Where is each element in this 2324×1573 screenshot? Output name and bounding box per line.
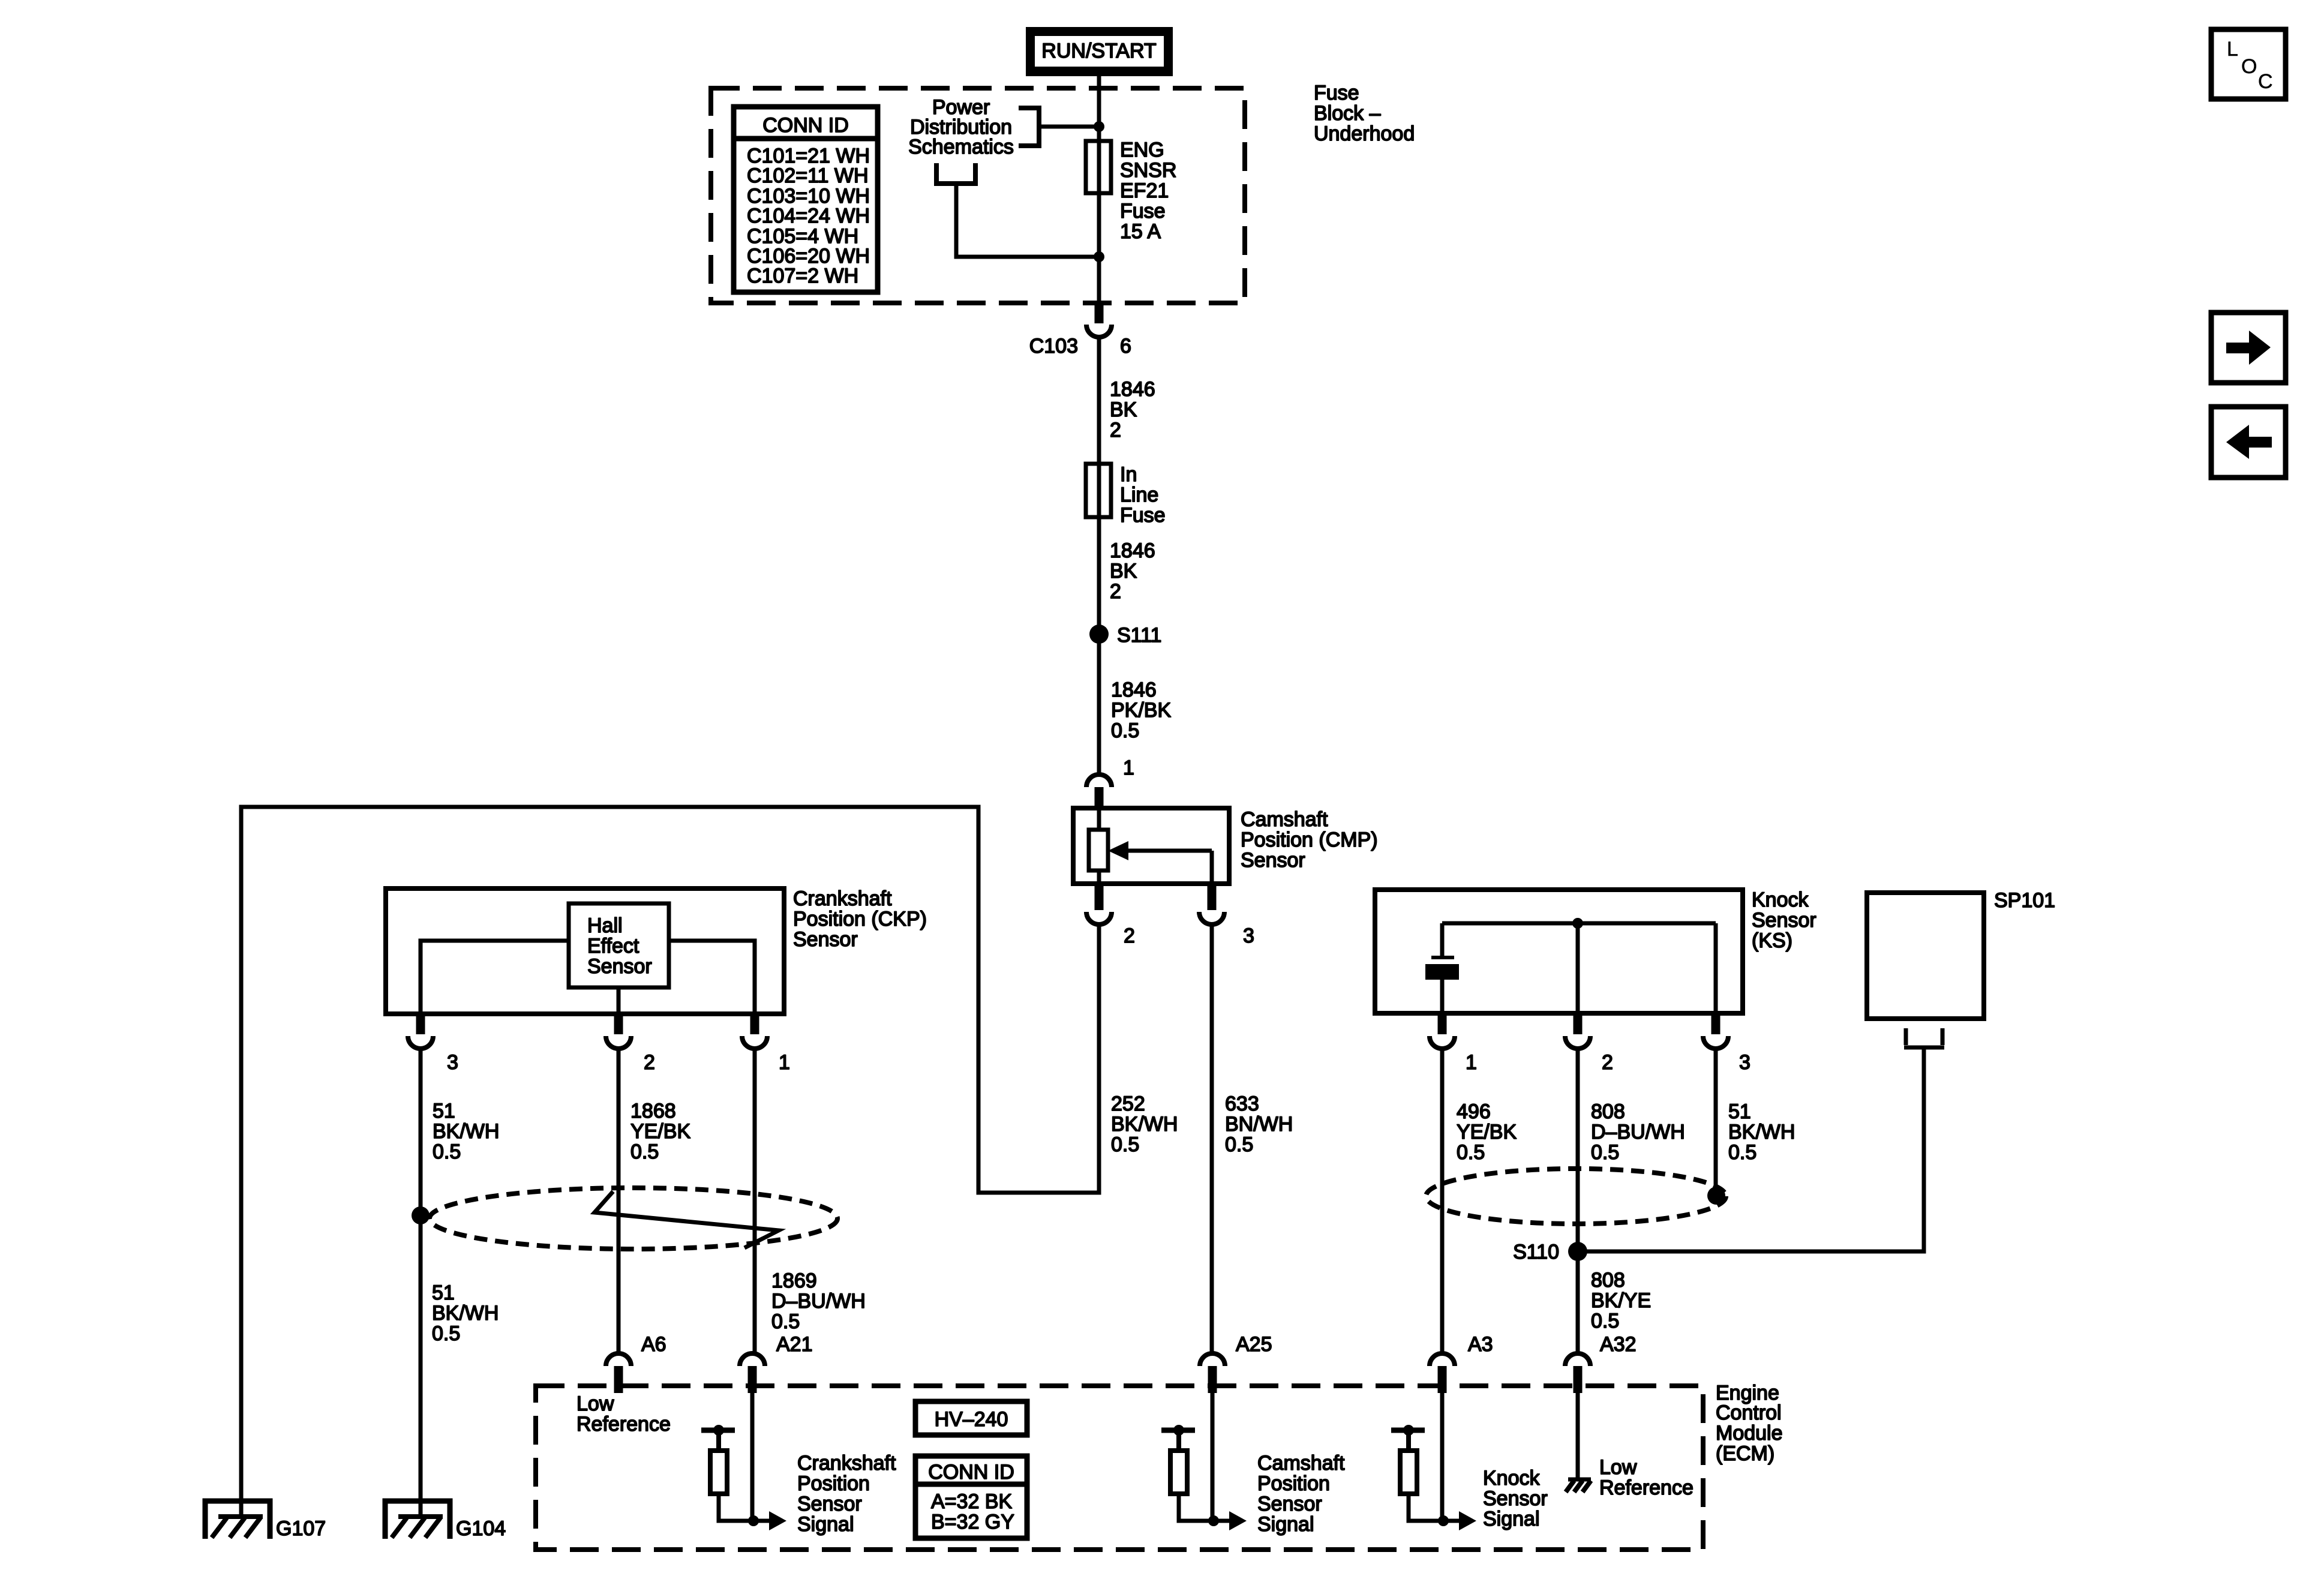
wire bracket to lower node bbox=[956, 184, 1099, 257]
svg-text:BK: BK bbox=[1110, 398, 1137, 421]
label Low Reference (A32) bbox=[1599, 1456, 1694, 1499]
svg-text:51: 51 bbox=[1728, 1100, 1751, 1123]
svg-text:Sensor: Sensor bbox=[1241, 849, 1305, 872]
wire label 252 BK/WH 0.5 bbox=[1111, 1092, 1178, 1156]
svg-text:Sensor: Sensor bbox=[1483, 1487, 1548, 1510]
svg-text:1: 1 bbox=[1123, 757, 1134, 779]
resistor and arrow for KS signal bbox=[1391, 1425, 1476, 1530]
CMP sensing element bbox=[1089, 830, 1108, 870]
ground G107 bbox=[205, 1501, 326, 1540]
connector pin 3 of knock sensor bbox=[1703, 1013, 1750, 1074]
in-line fuse bbox=[1086, 463, 1166, 527]
svg-text:Sensor: Sensor bbox=[793, 928, 858, 951]
svg-text:RUN/START: RUN/START bbox=[1041, 40, 1156, 62]
wire label 51 BK/WH 0.5 bbox=[433, 1100, 499, 1163]
label Fuse Block - Underhood bbox=[1314, 82, 1415, 145]
svg-text:A3: A3 bbox=[1468, 1333, 1493, 1356]
svg-text:Position: Position bbox=[1257, 1472, 1330, 1495]
wire KS internal pin 2 bbox=[1576, 923, 1580, 1013]
connector A32 bbox=[1565, 1333, 1637, 1393]
svg-text:C104=24 WH: C104=24 WH bbox=[747, 205, 870, 227]
svg-text:Schematics: Schematics bbox=[908, 136, 1014, 158]
resistor and arrow for CMP signal bbox=[1161, 1425, 1247, 1530]
connector A21 bbox=[740, 1333, 813, 1393]
connector C103 pin 6 bbox=[1029, 302, 1131, 358]
svg-text:BN/WH: BN/WH bbox=[1225, 1113, 1293, 1136]
svg-text:0.5: 0.5 bbox=[433, 1140, 461, 1163]
wire CKP pin 1 to A21 bbox=[753, 1049, 757, 1352]
wire label 51 BK/WH 0.5 (KS) bbox=[1728, 1100, 1795, 1164]
svg-text:Sensor: Sensor bbox=[587, 955, 652, 978]
wire label 808 D-BU/WH 0.5 bbox=[1591, 1100, 1685, 1164]
knock sensor KS box bbox=[1375, 890, 1743, 1013]
svg-text:51: 51 bbox=[432, 1281, 455, 1304]
svg-text:B=32 GY: B=32 GY bbox=[931, 1511, 1014, 1533]
CONN ID box (ECM) bbox=[915, 1456, 1027, 1538]
svg-text:0.5: 0.5 bbox=[771, 1310, 800, 1333]
svg-text:3: 3 bbox=[1243, 924, 1254, 947]
svg-text:D–BU/WH: D–BU/WH bbox=[771, 1290, 866, 1313]
svg-text:0.5: 0.5 bbox=[630, 1140, 659, 1163]
svg-text:Underhood: Underhood bbox=[1314, 122, 1415, 145]
connector A3 bbox=[1430, 1333, 1493, 1393]
svg-text:0.5: 0.5 bbox=[1111, 1133, 1139, 1156]
svg-text:D–BU/WH: D–BU/WH bbox=[1591, 1121, 1685, 1143]
svg-text:15 A: 15 A bbox=[1120, 220, 1161, 243]
svg-text:Low: Low bbox=[1599, 1456, 1637, 1479]
wire A3 into ECM bbox=[1440, 1393, 1445, 1521]
wire S110 to A32 bbox=[1576, 1251, 1580, 1352]
svg-text:BK: BK bbox=[1110, 560, 1137, 583]
svg-text:0.5: 0.5 bbox=[1591, 1310, 1619, 1332]
svg-text:808: 808 bbox=[1591, 1100, 1625, 1123]
svg-text:PK/BK: PK/BK bbox=[1111, 699, 1171, 722]
svg-text:1869: 1869 bbox=[771, 1269, 817, 1292]
wire CKP internal pin 1 bbox=[669, 941, 755, 1014]
wire A32 to internal ground bbox=[1576, 1393, 1580, 1479]
wire RUN/START to fuse block bbox=[1097, 76, 1101, 127]
connector pin 1 of knock sensor bbox=[1430, 1013, 1477, 1074]
svg-text:Reference: Reference bbox=[1599, 1476, 1694, 1499]
svg-text:Signal: Signal bbox=[1257, 1513, 1314, 1536]
connector pin 3 of CKP sensor bbox=[408, 1014, 458, 1074]
wire label 1846 PK/BK 0.5 bbox=[1111, 679, 1171, 742]
svg-text:0.5: 0.5 bbox=[1111, 719, 1139, 742]
svg-text:3: 3 bbox=[1739, 1051, 1750, 1074]
wire S110 to SP101 bbox=[1578, 1049, 1924, 1251]
CONN ID table (fuse block) bbox=[734, 107, 878, 292]
fuse block underhood dashed outline bbox=[711, 88, 1245, 303]
engine control module ECM dashed outline bbox=[536, 1386, 1703, 1550]
CMP wiper arrow bbox=[1108, 841, 1128, 860]
ECM internal ground (low reference) bbox=[1566, 1479, 1591, 1492]
wire label 808 BK/YE 0.5 bbox=[1591, 1269, 1651, 1332]
connector A6 bbox=[606, 1333, 666, 1393]
svg-text:1868: 1868 bbox=[630, 1100, 676, 1122]
svg-text:1846: 1846 bbox=[1111, 679, 1157, 701]
wire CMP pin 2 to ground G107 bbox=[241, 807, 1099, 1518]
wire in-line fuse to S111 bbox=[1097, 517, 1101, 774]
wire KS pin 1 to A3 bbox=[1440, 1049, 1445, 1352]
svg-text:BK/WH: BK/WH bbox=[433, 1120, 499, 1143]
label Knock Sensor Signal bbox=[1483, 1467, 1548, 1530]
svg-text:C107=2 WH: C107=2 WH bbox=[747, 265, 858, 287]
svg-text:Position: Position bbox=[797, 1472, 870, 1495]
svg-text:C: C bbox=[2258, 70, 2273, 93]
connector pin 3 of CMP sensor bbox=[1199, 884, 1254, 947]
wire label 1868 YE/BK 0.5 bbox=[630, 1100, 690, 1163]
svg-text:A6: A6 bbox=[641, 1333, 666, 1356]
svg-text:S110: S110 bbox=[1513, 1241, 1559, 1263]
svg-text:496: 496 bbox=[1457, 1100, 1491, 1123]
svg-text:Crankshaft: Crankshaft bbox=[797, 1452, 896, 1475]
wire CKP pin 3 to ground G104 bbox=[419, 1049, 423, 1518]
svg-text:Camshaft: Camshaft bbox=[1241, 808, 1328, 831]
svg-text:EF21: EF21 bbox=[1120, 179, 1169, 202]
svg-text:G104: G104 bbox=[456, 1517, 506, 1540]
svg-text:(KS): (KS) bbox=[1752, 929, 1792, 952]
svg-text:Block –: Block – bbox=[1314, 102, 1381, 125]
svg-text:Fuse: Fuse bbox=[1314, 82, 1359, 104]
svg-text:51: 51 bbox=[433, 1100, 455, 1122]
svg-text:2: 2 bbox=[644, 1051, 655, 1074]
svg-text:Knock: Knock bbox=[1483, 1467, 1540, 1490]
svg-text:CONN ID: CONN ID bbox=[762, 114, 849, 137]
svg-text:BK/YE: BK/YE bbox=[1591, 1289, 1651, 1312]
svg-text:G107: G107 bbox=[276, 1517, 326, 1540]
svg-text:C103: C103 bbox=[1029, 335, 1078, 358]
node KS internal junction bbox=[1572, 918, 1583, 929]
label Camshaft Position (CMP) Sensor bbox=[1241, 808, 1378, 872]
connector pin 2 of CMP sensor bbox=[1086, 884, 1135, 947]
svg-text:0.5: 0.5 bbox=[1728, 1141, 1756, 1164]
connector pin 1 of CMP sensor bbox=[1086, 757, 1134, 808]
splice S110 bbox=[1513, 1241, 1587, 1263]
svg-text:O: O bbox=[2241, 55, 2257, 78]
label Power Distribution Schematics bbox=[908, 96, 1014, 158]
twist symbol zigzag (CKP) bbox=[594, 1191, 779, 1248]
fuse ENG SNSR EF21 15A bbox=[1086, 139, 1176, 243]
svg-text:1846: 1846 bbox=[1110, 378, 1155, 401]
wire C103 to in-line fuse bbox=[1097, 337, 1101, 520]
wire KS pin 3 to shield dot bbox=[1714, 1049, 1718, 1196]
junction dot on shield (CKP) bbox=[412, 1206, 430, 1224]
svg-text:BK/WH: BK/WH bbox=[1111, 1113, 1178, 1136]
svg-text:1846: 1846 bbox=[1110, 539, 1155, 562]
svg-text:SP101: SP101 bbox=[1994, 889, 2055, 912]
label Camshaft Position Sensor Signal bbox=[1257, 1452, 1345, 1536]
resistor and arrow for CKP signal bbox=[701, 1425, 786, 1530]
svg-text:Sensor: Sensor bbox=[797, 1493, 862, 1515]
svg-text:S111: S111 bbox=[1117, 624, 1161, 647]
camshaft position sensor CMP box bbox=[1073, 808, 1229, 884]
svg-text:Module: Module bbox=[1716, 1422, 1783, 1445]
svg-text:Signal: Signal bbox=[1483, 1508, 1540, 1530]
svg-text:0.5: 0.5 bbox=[1457, 1141, 1485, 1164]
label Knock Sensor (KS) bbox=[1752, 888, 1816, 952]
svg-text:1: 1 bbox=[1466, 1051, 1477, 1074]
wire CMP internal pin 1 bbox=[1097, 808, 1101, 884]
connector A25 bbox=[1200, 1333, 1272, 1393]
wire label 1846 BK 2 bbox=[1110, 378, 1155, 442]
twisted pair shield ellipse (CKP) bbox=[430, 1188, 837, 1249]
svg-text:A=32 BK: A=32 BK bbox=[931, 1490, 1012, 1513]
svg-text:2: 2 bbox=[1124, 924, 1135, 947]
svg-text:Reference: Reference bbox=[577, 1413, 671, 1436]
wire CKP internal pin 3 bbox=[421, 941, 569, 1014]
svg-text:Fuse: Fuse bbox=[1120, 504, 1166, 527]
piezo element (KS) bbox=[1425, 923, 1459, 1013]
svg-text:BK/WH: BK/WH bbox=[1728, 1121, 1795, 1143]
svg-text:SNSR: SNSR bbox=[1120, 159, 1176, 182]
HV-240 box bbox=[915, 1401, 1027, 1435]
node junction below fuse bbox=[1094, 251, 1104, 262]
wire label 1846 BK 2 (second) bbox=[1110, 539, 1155, 603]
previous page arrow icon bbox=[2211, 407, 2286, 478]
svg-text:3: 3 bbox=[447, 1051, 458, 1074]
splice pack SP101 bbox=[1867, 889, 2055, 1047]
svg-text:0.5: 0.5 bbox=[432, 1322, 460, 1345]
LOC page icon bbox=[2211, 29, 2286, 99]
wire label 633 BN/WH 0.5 bbox=[1225, 1092, 1293, 1156]
off-page reference bracket (right) bbox=[1019, 108, 1039, 146]
connector pin 1 of CKP sensor bbox=[742, 1014, 790, 1074]
off-page reference bracket (bottom) bbox=[936, 163, 975, 184]
svg-text:1: 1 bbox=[779, 1051, 790, 1074]
wire through fuse bbox=[1097, 127, 1101, 303]
label Low Reference (A6) bbox=[577, 1392, 671, 1436]
RUN/START power feed box bbox=[1026, 27, 1173, 76]
svg-text:A21: A21 bbox=[776, 1333, 813, 1356]
svg-text:HV–240: HV–240 bbox=[935, 1408, 1008, 1431]
svg-text:Crankshaft: Crankshaft bbox=[793, 887, 892, 910]
svg-text:Position (CMP): Position (CMP) bbox=[1241, 828, 1378, 851]
wire CKP internal pin 2 bbox=[617, 987, 621, 1014]
label Engine Control Module (ECM) bbox=[1716, 1382, 1783, 1465]
svg-text:2: 2 bbox=[1110, 419, 1121, 442]
wire KS internal bus bbox=[1442, 921, 1716, 926]
svg-text:Effect: Effect bbox=[587, 935, 639, 957]
svg-text:Knock: Knock bbox=[1752, 888, 1809, 911]
svg-text:ENG: ENG bbox=[1120, 139, 1164, 161]
svg-text:L: L bbox=[2227, 38, 2238, 61]
wire label 51 BK/WH 0.5 (lower) bbox=[432, 1281, 499, 1345]
splice S111 bbox=[1089, 624, 1161, 647]
svg-text:Sensor: Sensor bbox=[1752, 909, 1816, 932]
wire label 496 YE/BK 0.5 bbox=[1457, 1100, 1517, 1164]
svg-text:YE/BK: YE/BK bbox=[1457, 1121, 1517, 1143]
svg-text:Low: Low bbox=[577, 1392, 614, 1415]
wire KS internal pin 3 bbox=[1714, 923, 1718, 1013]
hall effect sensor block bbox=[569, 903, 669, 987]
svg-text:Fuse: Fuse bbox=[1120, 200, 1166, 223]
svg-text:633: 633 bbox=[1225, 1092, 1259, 1115]
svg-text:252: 252 bbox=[1111, 1092, 1145, 1115]
svg-text:CONN ID: CONN ID bbox=[928, 1461, 1014, 1484]
svg-text:BK/WH: BK/WH bbox=[432, 1302, 499, 1325]
svg-text:A32: A32 bbox=[1600, 1333, 1637, 1356]
svg-text:Control: Control bbox=[1716, 1401, 1782, 1424]
wire A21 into ECM bbox=[750, 1393, 755, 1521]
svg-text:2: 2 bbox=[1602, 1051, 1613, 1074]
wire KS pin 2 to S110 bbox=[1576, 1049, 1580, 1251]
wire label 1869 D-BU/WH 0.5 bbox=[771, 1269, 866, 1333]
wire A25 into ECM bbox=[1211, 1393, 1215, 1521]
svg-text:Sensor: Sensor bbox=[1257, 1493, 1322, 1515]
svg-text:6: 6 bbox=[1120, 335, 1131, 358]
node junction at fuse top bbox=[1094, 121, 1104, 132]
ground G104 bbox=[385, 1501, 506, 1540]
svg-text:C102=11 WH: C102=11 WH bbox=[747, 164, 869, 187]
twisted pair shield ellipse (KS) bbox=[1426, 1169, 1726, 1224]
next page arrow icon bbox=[2211, 313, 2286, 383]
wire CMP pin 3 to A25 bbox=[1210, 924, 1214, 1352]
svg-text:0.5: 0.5 bbox=[1225, 1133, 1253, 1156]
svg-text:A25: A25 bbox=[1236, 1333, 1272, 1356]
connector pin 2 of CKP sensor bbox=[606, 1014, 655, 1074]
svg-text:2: 2 bbox=[1110, 580, 1121, 603]
svg-text:0.5: 0.5 bbox=[1591, 1141, 1619, 1164]
connector pin 2 of knock sensor bbox=[1565, 1013, 1613, 1074]
wire CKP pin 2 to A6 bbox=[617, 1049, 621, 1352]
crankshaft position sensor CKP box bbox=[386, 888, 784, 1014]
wire bracket to node bbox=[1039, 125, 1099, 129]
wire CMP internal pin 3 bbox=[1127, 849, 1212, 853]
svg-text:Hall: Hall bbox=[587, 914, 623, 937]
svg-text:Position (CKP): Position (CKP) bbox=[793, 908, 927, 930]
svg-text:Line: Line bbox=[1120, 484, 1158, 506]
svg-text:YE/BK: YE/BK bbox=[630, 1120, 690, 1143]
svg-text:Camshaft: Camshaft bbox=[1257, 1452, 1345, 1475]
label Crankshaft Position Sensor Signal bbox=[797, 1452, 896, 1536]
junction dot on shield (KS) bbox=[1707, 1187, 1725, 1205]
svg-text:(ECM): (ECM) bbox=[1716, 1442, 1774, 1465]
svg-text:In: In bbox=[1120, 463, 1137, 486]
label Crankshaft Position (CKP) Sensor bbox=[793, 887, 927, 951]
svg-text:808: 808 bbox=[1591, 1269, 1625, 1292]
svg-text:Signal: Signal bbox=[797, 1513, 854, 1536]
